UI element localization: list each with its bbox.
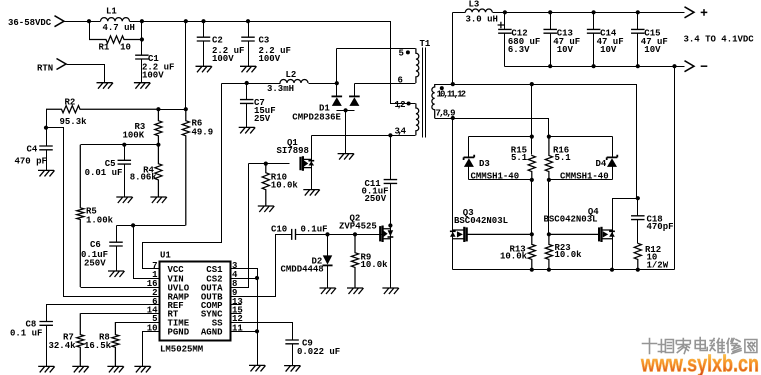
resistor R6 — [182, 109, 189, 225]
wire OUTA pin 8 riser — [231, 164, 249, 288]
ground R9 — [347, 288, 364, 294]
junction C12 top — [503, 10, 507, 14]
ground R10 — [258, 206, 275, 212]
wire C12 lower lead — [504, 34, 506, 67]
svg-text:BSC042N03L: BSC042N03L — [454, 216, 508, 226]
svg-text:4.7 uH: 4.7 uH — [103, 23, 135, 33]
svg-text:25V: 25V — [254, 114, 271, 124]
wire C3 lower lead — [248, 42, 250, 67]
plus mark C12 — [498, 22, 505, 29]
junction bottom rail R13 — [530, 268, 534, 272]
junction bottom rail Q4 — [610, 268, 614, 272]
wire C3 upper lead — [248, 22, 250, 38]
svg-text:C2: C2 — [212, 36, 223, 46]
ground C6 — [108, 271, 125, 277]
wire C8 lower lead — [46, 326, 48, 367]
svg-text:1.00k: 1.00k — [86, 216, 114, 226]
svg-text:L2: L2 — [286, 70, 297, 80]
ground C7 — [239, 127, 256, 133]
junction R9 top — [353, 232, 357, 236]
capacitor C6 — [109, 242, 123, 246]
transistor Q2 ZVP4525 — [380, 226, 393, 243]
wire RTN to ground — [67, 65, 105, 83]
ground C3 — [240, 66, 257, 72]
junction R10 top — [264, 162, 268, 166]
wire VCC pin 7 to bias rail — [143, 84, 222, 269]
phase dot winding 5 — [406, 50, 410, 54]
wire C11 upper lead — [390, 136, 392, 180]
svg-text:LM5025MM: LM5025MM — [160, 345, 203, 355]
capacitor C5 — [118, 160, 132, 164]
wire box1 left upper / D3 cathode — [468, 137, 470, 158]
svg-text:100K: 100K — [123, 131, 145, 141]
junction C3 top — [246, 19, 250, 23]
wire C14 upper lead — [593, 13, 595, 30]
svg-text:0.1 uF: 0.1 uF — [10, 329, 42, 339]
svg-text:RTN: RTN — [37, 64, 53, 74]
transistor Q4 BSC042N03L — [549, 227, 615, 242]
inductor L2 — [280, 80, 308, 84]
wire Q4 main vertical — [613, 199, 638, 270]
svg-text:6.3V: 6.3V — [508, 45, 530, 55]
wire L3 riser — [452, 13, 454, 85]
svg-text:250V: 250V — [365, 194, 387, 204]
svg-text:C3: C3 — [259, 36, 270, 46]
wire D1 to ground — [345, 111, 347, 154]
junction R3 top — [156, 107, 160, 111]
resistor R13 — [528, 234, 535, 269]
label minus — [701, 65, 708, 67]
transistor Q3 BSC042N03L — [450, 227, 532, 242]
ground C1 — [134, 83, 151, 89]
wire R15 branch to Q3 gate — [531, 180, 533, 235]
wire REF pin 6 to C8 — [47, 305, 160, 322]
svg-text:3.3mH: 3.3mH — [267, 84, 294, 94]
T1 primary winding 5-6 — [416, 48, 419, 83]
wire T1 pin 3,4 to Q1 drain — [312, 135, 416, 137]
wire C10 to Q2 gate — [296, 234, 382, 236]
svg-text:8.06k: 8.06k — [130, 173, 158, 183]
wire T1 pin 5 horizontal — [337, 48, 416, 50]
svg-text:CMMSH1-40: CMMSH1-40 — [471, 172, 520, 182]
junction cap bottom — [548, 64, 552, 68]
svg-text:5: 5 — [399, 49, 404, 59]
phase dot winding 1,2 — [407, 102, 411, 106]
junction CS2 — [255, 276, 259, 280]
junction box2 bottom left — [547, 178, 551, 182]
wire C6 upper lead — [116, 226, 118, 243]
wire RT pin 14 to R7 — [81, 313, 160, 315]
wire D1 anode bar — [337, 110, 355, 112]
ground PGND — [134, 366, 151, 372]
transistor Q1 SI7898 — [301, 156, 315, 171]
wire D1 right cathode lead — [354, 84, 356, 97]
wire L2 to D1 node — [309, 83, 337, 85]
ground C8 — [38, 366, 55, 372]
ground Q2 — [382, 288, 399, 294]
svg-text:CMPD2836E: CMPD2836E — [292, 113, 341, 123]
ground CS/AGND — [249, 365, 266, 371]
watermark chinese text 十堰家电维修网 — [643, 338, 757, 354]
wire snubber box2 bottom — [549, 179, 613, 181]
junction C14 top — [592, 10, 596, 14]
wire box1 left lower — [468, 167, 470, 180]
junction Q2 drain / C11 — [388, 223, 392, 227]
svg-text:R1 10: R1 10 — [99, 43, 131, 53]
wire VIN node to pin 1 — [134, 226, 160, 279]
wire C2 upper lead — [203, 22, 205, 38]
svg-text:PGND: PGND — [168, 328, 190, 338]
resistor R7 — [77, 313, 84, 366]
svg-text:10,11,12: 10,11,12 — [437, 90, 467, 100]
capacitor C15 — [631, 29, 645, 33]
junction cap bottom — [592, 64, 596, 68]
wire CS2 pin 4 stub — [231, 278, 258, 280]
junction L1 right — [140, 19, 144, 23]
svg-text:CMDD4448: CMDD4448 — [281, 265, 324, 275]
wire secondary bottom net — [435, 119, 549, 137]
junction C13 top — [548, 10, 552, 14]
junction L1 left — [87, 19, 91, 23]
svg-text:16.5k: 16.5k — [84, 341, 112, 351]
svg-text:6: 6 — [398, 76, 403, 86]
wire AGND pin 11 stub — [231, 331, 258, 333]
wire C7 upper lead — [246, 84, 248, 100]
capacitor C12 — [498, 29, 512, 33]
wire C9 lower lead — [292, 344, 294, 366]
T1 secondary winding — [432, 84, 435, 118]
resistor R16 — [545, 137, 552, 180]
wire C1 lower lead — [141, 60, 143, 83]
op-amp U1 LM5025MM controller box — [160, 262, 231, 341]
wire OUTA to Q1 gate — [249, 163, 290, 165]
junction box1 bottom right — [530, 178, 534, 182]
transformer T1 core — [423, 48, 426, 138]
wire output plus rail — [493, 12, 685, 14]
wire C15 lower lead — [637, 34, 639, 67]
junction bottom rail R12 — [636, 268, 640, 272]
svg-text:AGND: AGND — [201, 328, 223, 338]
junction L2 / T1 pin5 / D1 — [335, 81, 339, 85]
svg-text:49.9: 49.9 — [192, 128, 214, 138]
resistor R3 — [155, 109, 162, 145]
wire T1 pin 6 horizontal — [355, 83, 416, 85]
ground C2 — [196, 66, 213, 72]
junction R6 top — [184, 107, 188, 111]
resistor R2 — [46, 106, 158, 113]
ground D2 — [320, 288, 337, 294]
junction C15 top — [636, 10, 640, 14]
junction box2 top left — [547, 135, 551, 139]
capacitor C13 — [543, 29, 557, 33]
wire R1 left lead down — [89, 22, 91, 40]
svg-text:www.sylxb.cn: www.sylxb.cn — [640, 351, 759, 375]
wire snubber box1 top — [469, 136, 532, 138]
wire UVLO divider node — [81, 144, 159, 146]
svg-text:3.4 TO 4.1VDC: 3.4 TO 4.1VDC — [684, 35, 755, 45]
svg-text:0.1uF: 0.1uF — [301, 225, 328, 235]
capacitor C8 — [39, 322, 53, 326]
diode D3 CMMSH1-40 — [464, 155, 475, 167]
junction R3/R4 — [156, 143, 160, 147]
resistor R10 — [262, 164, 269, 206]
wire C13 upper lead — [550, 13, 552, 30]
wire RAMP net to pin 2 — [47, 128, 160, 297]
input arrow 36-58VDC — [55, 16, 65, 27]
svg-text:10.0k: 10.0k — [500, 252, 528, 262]
wire D2 anode lead — [327, 235, 329, 256]
wire output minus rail — [505, 66, 685, 68]
svg-text:SI7898: SI7898 — [277, 146, 309, 156]
wire C7 lower lead — [246, 104, 248, 128]
ground Q1 source — [303, 190, 320, 196]
capacitor C10 — [292, 229, 296, 240]
T1 primary winding 1,2-3,4 — [416, 104, 419, 136]
wire box2 right upper / D4 cathode — [612, 137, 614, 158]
junction R13 top — [530, 232, 534, 236]
resistor R8 — [112, 322, 119, 366]
svg-text:5.1: 5.1 — [511, 153, 528, 163]
svg-text:C6: C6 — [90, 240, 101, 250]
svg-text:32.4k: 32.4k — [49, 341, 77, 351]
junction C11 top — [388, 133, 392, 137]
inductor L3 — [465, 9, 492, 12]
wire C18 to R12 — [637, 220, 639, 244]
resistor R9 — [351, 234, 358, 288]
wire R16 branch to Q4 gate — [548, 180, 550, 235]
wire SYNC stub pin 15 — [231, 313, 242, 315]
wire Q1 main vertical — [311, 136, 313, 190]
svg-text:10.0k: 10.0k — [361, 260, 389, 270]
wire bias rail to L2 — [222, 83, 281, 85]
junction box1 top right — [530, 135, 534, 139]
capacitor C2 — [197, 37, 211, 41]
wire COMP stub pin 13 — [231, 304, 242, 306]
capacitor C9 — [285, 340, 299, 344]
wire C4 lower lead — [46, 150, 48, 171]
wire C1 upper lead — [141, 22, 143, 56]
wire C5 lower lead — [124, 165, 126, 198]
junction R1 right / C1 top — [140, 37, 144, 41]
wire VIN node horizontal — [117, 225, 186, 227]
wire C4 upper lead — [46, 128, 48, 147]
junction R15 branch top — [530, 82, 534, 86]
wire secondary bottom rail — [453, 269, 675, 271]
svg-text:D4: D4 — [596, 159, 607, 169]
wire OUTB pin 9 to C10 — [231, 235, 292, 297]
svg-text:10V: 10V — [600, 45, 617, 55]
wire R2 right to R6 node — [159, 109, 186, 111]
junction VIN node — [131, 223, 135, 227]
wire R2 left down to C4 node — [46, 110, 48, 128]
wire R15 branch upper — [531, 85, 533, 155]
wire C15 upper lead — [637, 13, 639, 30]
phase dot secondary — [440, 86, 444, 90]
capacitor C7 — [240, 100, 254, 104]
svg-text:36-58VDC: 36-58VDC — [8, 18, 52, 28]
junction AGND — [255, 329, 259, 333]
capacitor C11 — [384, 180, 398, 184]
ground C5 — [116, 197, 133, 203]
capacitor C1 — [135, 55, 149, 59]
ground C9 — [284, 366, 301, 372]
output arrow plus — [685, 7, 695, 18]
wire snubber box1 bottom — [469, 179, 532, 181]
svg-text:C10: C10 — [271, 225, 287, 235]
svg-text:250V: 250V — [84, 259, 106, 269]
wire CS1 pin 3 to ground rail — [231, 269, 258, 366]
wire C5 upper lead — [124, 145, 126, 161]
capacitor C4 — [39, 146, 53, 150]
diode D4 CMMSH1-40 — [607, 155, 618, 167]
svg-text:3,4: 3,4 — [395, 126, 407, 136]
wire input rail to T1 pin 1,2 — [130, 22, 416, 104]
junction input rail to R2/R6 — [184, 19, 188, 23]
wire Q2 main vertical — [390, 226, 392, 289]
svg-text:100V: 100V — [142, 71, 164, 81]
inductor L1 — [101, 18, 130, 22]
wire snubber box2 top — [549, 136, 613, 138]
svg-text:1,2: 1,2 — [395, 100, 406, 110]
wire pin5 riser / D1 left cathode lead — [336, 49, 338, 97]
wire C14 lower lead — [593, 34, 595, 67]
diode D1 right half — [349, 96, 360, 106]
capacitor C14 — [587, 29, 601, 33]
junction Q3 branch — [451, 116, 455, 120]
svg-text:C4: C4 — [27, 145, 38, 155]
svg-text:10.0k: 10.0k — [271, 181, 299, 191]
svg-text:CMMSH1-40: CMMSH1-40 — [560, 172, 609, 182]
ground RTN — [97, 83, 114, 89]
wire Q3 main vertical — [452, 119, 454, 270]
ground D1 — [338, 154, 355, 160]
resistor R4 — [155, 145, 162, 197]
svg-text:BSC042N03L: BSC042N03L — [544, 215, 598, 225]
svg-text:95.3k: 95.3k — [60, 117, 88, 127]
wire C2 lower lead — [203, 42, 205, 67]
resistor R23 — [545, 234, 552, 269]
input arrow RTN — [57, 59, 67, 70]
ground R4 — [150, 197, 167, 203]
svg-text:10V: 10V — [644, 45, 661, 55]
wire to L3 — [453, 12, 466, 14]
svg-text:470 pF: 470 pF — [15, 157, 47, 167]
svg-text:100V: 100V — [259, 54, 281, 64]
wire box2 right lower — [612, 167, 614, 180]
junction D2 top — [325, 232, 329, 236]
resistor R1 — [89, 36, 142, 43]
diode D1 left half CMPD2836E — [332, 96, 343, 106]
resistor R12 — [634, 243, 641, 269]
wire SS pin 12 to C9 — [231, 323, 293, 341]
junction L3 riser — [451, 82, 455, 86]
wire input rail left segment — [65, 21, 101, 23]
diode D2 CMDD4448 — [322, 255, 332, 265]
svg-text:ZVP4525: ZVP4525 — [339, 222, 377, 232]
svg-text:D3: D3 — [479, 159, 490, 169]
junction minus rail riser — [672, 64, 676, 68]
junction C5 top — [122, 143, 126, 147]
label plus — [701, 9, 708, 16]
capacitor C18 — [631, 216, 645, 220]
capacitor C3 — [241, 37, 255, 41]
output arrow minus — [685, 61, 695, 72]
svg-text:R2: R2 — [65, 98, 76, 108]
wire rail down to R2/R6 node — [185, 22, 187, 110]
svg-text:3.0 uH: 3.0 uH — [466, 15, 498, 25]
wire TIME pin 5 to R8 — [116, 322, 160, 324]
svg-text:10.0k: 10.0k — [555, 250, 583, 260]
wire D2 cathode to ground — [327, 266, 329, 289]
svg-text:0.022 uF: 0.022 uF — [297, 347, 340, 357]
wire C12 upper lead — [504, 13, 506, 30]
wire PGND pin 10 to ground — [143, 332, 160, 367]
junction bottom rail R23 — [547, 268, 551, 272]
svg-text:U1: U1 — [160, 251, 171, 261]
junction C7 top — [245, 81, 249, 85]
ground R7 — [72, 366, 89, 372]
wire C11 to Q2 — [390, 184, 392, 226]
svg-text:L1: L1 — [106, 7, 117, 17]
ground C4 — [38, 170, 55, 176]
wire minus rail riser — [674, 67, 676, 270]
wire C18 upper lead — [637, 199, 639, 216]
svg-text:L3: L3 — [469, 0, 480, 10]
svg-text:0.01 uF: 0.01 uF — [85, 168, 123, 178]
resistor R15 — [528, 155, 535, 180]
junction R23 top — [547, 232, 551, 236]
wire C13 lower lead — [550, 34, 552, 67]
wire R5 to UVLO pin 16 — [81, 287, 160, 289]
resistor R5 — [77, 145, 84, 287]
junction C2 top — [201, 19, 205, 23]
junction C18 top — [636, 196, 640, 200]
svg-text:5.1: 5.1 — [555, 153, 572, 163]
svg-text:10V: 10V — [557, 45, 574, 55]
ground R8 — [107, 366, 124, 372]
wire secondary top net — [435, 85, 637, 199]
svg-text:470pF: 470pF — [647, 222, 674, 232]
junction C4 / RAMP — [44, 126, 48, 130]
junction D1 anodes — [344, 108, 348, 112]
junction cap bottom — [636, 64, 640, 68]
wire C6 lower lead — [116, 247, 118, 272]
svg-text:100V: 100V — [212, 54, 234, 64]
